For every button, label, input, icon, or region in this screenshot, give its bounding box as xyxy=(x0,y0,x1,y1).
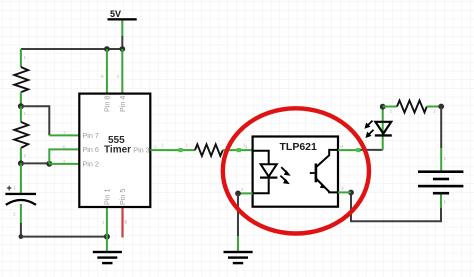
wire pin5 red stub xyxy=(121,207,123,238)
tiny pin number labels xyxy=(13,55,447,225)
wire battery bottom xyxy=(351,193,441,222)
wire battery drop xyxy=(440,107,442,171)
wire 5V to rail xyxy=(121,21,123,50)
opto internal cathode lead xyxy=(253,179,269,194)
wire node A to pin7 xyxy=(21,106,79,135)
LED light arrow 2 xyxy=(366,130,373,137)
wire node A to R2 xyxy=(20,106,22,122)
wire endpoint marker xyxy=(178,148,182,152)
wire LED branch vertical xyxy=(382,107,384,150)
wire cathode to ground xyxy=(237,193,239,251)
wire LED to R3 xyxy=(383,106,397,108)
optocoupler U2 TLP621 xyxy=(253,137,338,207)
wire R3 to battery top xyxy=(427,106,440,108)
wire node C to pin2 xyxy=(49,163,79,165)
svg-text:Pin 3: Pin 3 xyxy=(133,146,149,155)
battery BT1 xyxy=(418,170,463,194)
junction dot rail-pin8 xyxy=(104,46,110,52)
wire capacitor to bottom rail xyxy=(20,204,22,237)
svg-text:Pin 8: Pin 8 xyxy=(103,96,112,112)
svg-text:5V: 5V xyxy=(110,9,121,19)
opto phototransistor emitter xyxy=(317,179,339,192)
svg-text:Pin 7: Pin 7 xyxy=(83,131,99,140)
junction dot LED top xyxy=(380,104,386,110)
opto internal LED xyxy=(260,164,277,179)
ground GND2 xyxy=(224,251,253,264)
wire opto cathode out xyxy=(238,192,253,194)
wire R4 to opto anode xyxy=(223,149,253,151)
opto light arrow 1 xyxy=(281,167,289,175)
wire pin4 drop xyxy=(121,49,123,94)
junction dot rail-pin4 xyxy=(119,46,125,52)
opto phototransistor collector xyxy=(317,150,339,167)
opto light arrow 2 xyxy=(280,176,288,184)
wire opto collector out xyxy=(338,149,383,151)
junction node A xyxy=(18,103,24,109)
LED D1 xyxy=(375,122,392,137)
wire R1 to node A xyxy=(20,92,22,106)
wire bottom rail xyxy=(21,236,107,238)
wire pin8 drop xyxy=(106,49,108,94)
junction dot pin1-rail xyxy=(104,234,110,240)
wire R2 to node B xyxy=(20,148,22,163)
wire top rail xyxy=(21,48,122,50)
opto phototransistor base xyxy=(310,164,317,183)
wire endpoint marker xyxy=(356,148,360,152)
resistor R4 xyxy=(195,144,223,156)
junction dot emitter xyxy=(348,190,354,196)
svg-text:Pin 6: Pin 6 xyxy=(83,145,99,154)
junction node B xyxy=(18,160,24,166)
wire pin3 to R4 xyxy=(150,149,195,151)
power supply 5V xyxy=(108,9,137,21)
svg-text:+: + xyxy=(7,183,12,193)
resistor R3 xyxy=(397,101,427,113)
wire endpoint marker xyxy=(237,148,241,152)
opto internal anode lead xyxy=(253,151,269,165)
junction corner bottom-left xyxy=(19,234,24,239)
wire rail to R1 xyxy=(20,49,22,67)
LED light arrow 1 xyxy=(365,121,372,128)
junction dot battery top xyxy=(438,104,444,110)
wire node B to capacitor xyxy=(20,163,22,193)
wire pin1 to ground xyxy=(106,207,108,251)
wire node B to node C xyxy=(21,162,49,164)
svg-text:Pin 4: Pin 4 xyxy=(118,96,127,112)
junction dot cathode xyxy=(235,191,241,197)
resistor R2 xyxy=(14,122,28,148)
svg-text:Pin 2: Pin 2 xyxy=(83,160,99,169)
svg-text:Timer: Timer xyxy=(104,145,131,156)
capacitor C1 xyxy=(5,183,36,205)
junction node C xyxy=(46,161,52,167)
svg-text:Pin 1: Pin 1 xyxy=(103,189,112,205)
svg-text:TLP621: TLP621 xyxy=(280,141,318,153)
resistor R1 xyxy=(14,67,28,92)
ground GND1 xyxy=(93,251,122,264)
wire opto emitter out xyxy=(338,191,351,193)
wire node C to pin6 xyxy=(49,149,79,163)
red highlight ellipse xyxy=(223,108,369,233)
op IC U1 555 timer xyxy=(79,94,150,207)
svg-text:Pin 5: Pin 5 xyxy=(118,189,127,205)
